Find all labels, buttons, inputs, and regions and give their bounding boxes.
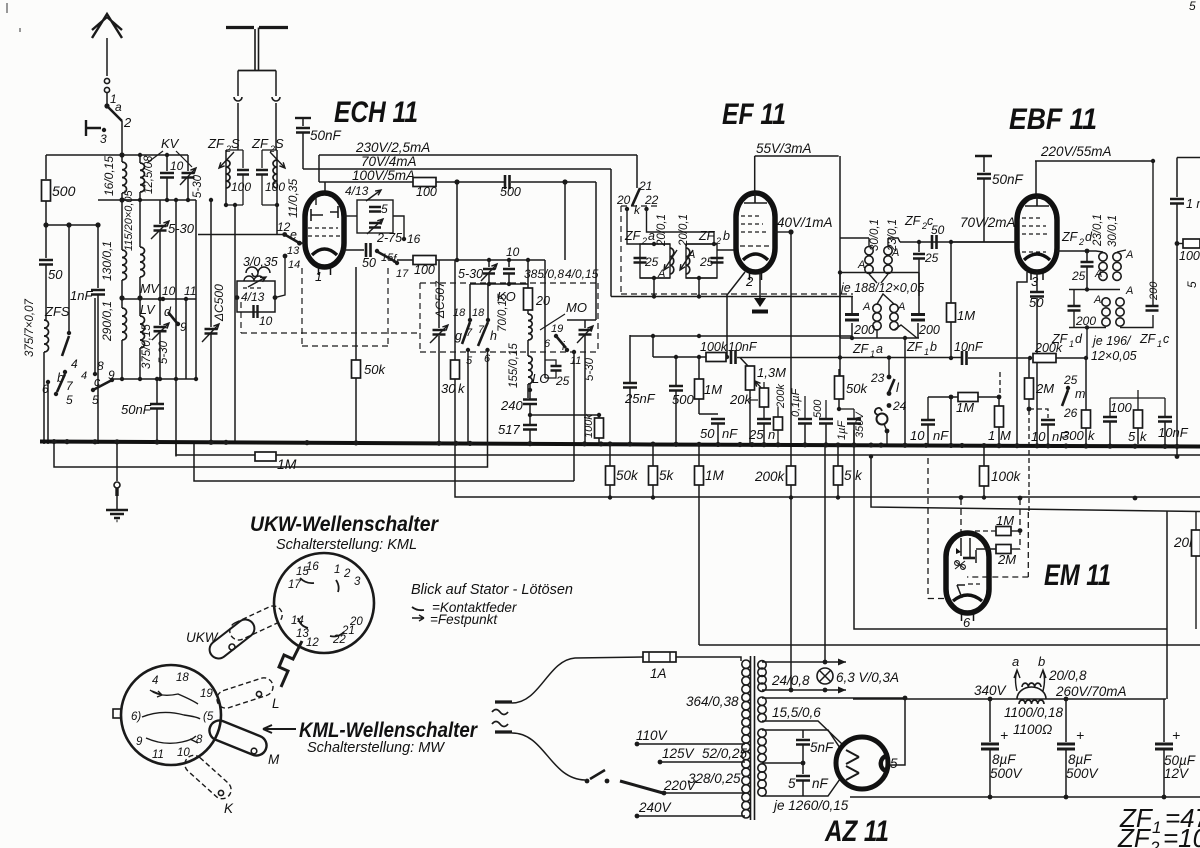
wire cathode rail y296 bbox=[611, 296, 853, 298]
svg-text:nF: nF bbox=[722, 426, 738, 441]
svg-text:3: 3 bbox=[100, 132, 107, 146]
heater lines with arrows bbox=[762, 661, 846, 663]
ZF1 coil tent bbox=[877, 294, 894, 304]
resistor 500 small bbox=[774, 417, 783, 430]
svg-text:20/0,1: 20/0,1 bbox=[678, 214, 690, 247]
output choke 20/0,8 bbox=[1017, 687, 1046, 699]
node line y200 bbox=[122, 199, 196, 201]
svg-text:5: 5 bbox=[381, 202, 388, 216]
mains plug bbox=[495, 702, 512, 732]
resistor 5k EBF bbox=[1134, 410, 1143, 428]
svg-text:1M: 1M bbox=[277, 456, 297, 472]
wires HV to AZ11 bbox=[803, 730, 840, 748]
ZF2d circuit capacitor 25 bbox=[1086, 251, 1088, 261]
capacitor 5nF upper bbox=[802, 730, 804, 738]
resistor 1M EBF bbox=[947, 303, 956, 322]
svg-text:1M: 1M bbox=[704, 382, 722, 397]
svg-text:10: 10 bbox=[506, 245, 520, 259]
capacitor 50 bbox=[45, 225, 47, 258]
resistor 50k row bbox=[606, 466, 615, 485]
svg-text:1M: 1M bbox=[705, 468, 725, 483]
pilot lamp 6,3V bbox=[817, 668, 833, 684]
dashed wire 2M node to 10nF mid and EM11 bbox=[1029, 409, 1048, 512]
scan mark top-left bbox=[7, 3, 20, 32]
wire can1 down to bus bbox=[234, 205, 236, 444]
svg-text:ΔC507: ΔC507 bbox=[433, 280, 447, 319]
wire contacts 18 up bbox=[469, 284, 471, 318]
svg-text:517: 517 bbox=[498, 422, 520, 437]
svg-text:h: h bbox=[490, 329, 497, 343]
svg-text:230V/2,5mA: 230V/2,5mA bbox=[355, 140, 430, 155]
svg-text:A: A bbox=[1125, 249, 1133, 261]
svg-text:a: a bbox=[115, 100, 122, 114]
svg-text:nF: nF bbox=[812, 776, 829, 791]
frame antenna crossbar bbox=[238, 70, 276, 72]
svg-text:k: k bbox=[634, 203, 641, 217]
svg-text:385/0,8: 385/0,8 bbox=[524, 267, 564, 281]
svg-text:18: 18 bbox=[176, 672, 189, 684]
switch l contacts 23 24 bbox=[888, 358, 890, 377]
trimmer 5-30 KV bbox=[187, 155, 189, 171]
tube EBF11 envelope bbox=[1017, 196, 1057, 272]
svg-text:200: 200 bbox=[853, 323, 875, 337]
svg-text:30: 30 bbox=[441, 381, 456, 396]
svg-text:2: 2 bbox=[343, 568, 351, 580]
resistor 100k right edge bbox=[1183, 239, 1200, 248]
coil 130/0,1 bbox=[121, 200, 123, 250]
wire AVC line y336 bbox=[630, 335, 852, 337]
svg-text:Schalterstellung: MW: Schalterstellung: MW bbox=[307, 740, 445, 756]
coupling link bbox=[279, 641, 302, 687]
frame antenna left leg bbox=[237, 71, 239, 97]
svg-text:EF 11: EF 11 bbox=[722, 98, 786, 131]
resistor 1M row bbox=[695, 466, 704, 485]
svg-text:8: 8 bbox=[97, 359, 104, 373]
capacitor 200 ZF1b bbox=[911, 315, 925, 321]
svg-text:4/0,15: 4/0,15 bbox=[565, 267, 599, 281]
capacitor 25 shunt bbox=[918, 242, 920, 252]
svg-text:10: 10 bbox=[910, 428, 925, 443]
svg-text:25: 25 bbox=[555, 374, 570, 388]
svg-text:4/13: 4/13 bbox=[241, 290, 265, 304]
svg-text:5: 5 bbox=[844, 468, 852, 483]
svg-text:25: 25 bbox=[1071, 269, 1086, 283]
svg-text:ZF: ZF bbox=[698, 229, 716, 243]
svg-text:23/0,1: 23/0,1 bbox=[1092, 214, 1104, 247]
transformer primary winding bbox=[742, 660, 750, 668]
svg-text:130/0,1: 130/0,1 bbox=[100, 241, 114, 281]
wire AVC feed line y357 bbox=[652, 336, 654, 357]
switch f lever 17 bbox=[375, 249, 379, 253]
resistor 500 bbox=[42, 180, 51, 201]
capacitor 50nF cathode bbox=[711, 419, 725, 424]
wire feed into ZF2a bbox=[627, 209, 670, 244]
wire triode grid to box bbox=[344, 215, 357, 217]
svg-text:200: 200 bbox=[1148, 281, 1160, 301]
capacitor 50nF ECH bbox=[295, 117, 311, 119]
capacitor 50nF EBF bbox=[975, 155, 992, 158]
svg-text:+: + bbox=[1076, 727, 1084, 743]
svg-text:11: 11 bbox=[570, 355, 581, 367]
svg-text:5-30: 5-30 bbox=[168, 221, 195, 236]
svg-text:4: 4 bbox=[152, 675, 158, 687]
svg-text:UKW: UKW bbox=[186, 630, 219, 645]
svg-text:500: 500 bbox=[500, 185, 521, 199]
svg-text:5k: 5k bbox=[659, 468, 675, 483]
svg-text:10nF: 10nF bbox=[728, 340, 758, 354]
svg-text:UKW-Wellenschalter: UKW-Wellenschalter bbox=[250, 513, 440, 536]
svg-text:je 1260/0,15: je 1260/0,15 bbox=[772, 798, 849, 813]
svg-text:M: M bbox=[268, 752, 280, 767]
svg-text:5: 5 bbox=[1185, 281, 1199, 288]
svg-text:1A: 1A bbox=[650, 666, 667, 681]
svg-text:6: 6 bbox=[544, 338, 551, 350]
lever M solid bbox=[206, 717, 269, 758]
vertical feed x196 bbox=[195, 200, 197, 379]
legend Festpunkt bbox=[412, 615, 424, 621]
svg-text:2: 2 bbox=[123, 115, 132, 130]
dashed box ZF2ab bbox=[621, 206, 853, 294]
resistor 50k ECH cathode bbox=[355, 267, 357, 360]
svg-text:ZF: ZF bbox=[1061, 230, 1079, 244]
ZF1 transformer je188 top rail bbox=[840, 272, 919, 274]
capacitor 500 bbox=[669, 386, 683, 391]
coil 16/0,15 bbox=[121, 155, 123, 162]
wire EF11 pin to AVC junction bbox=[727, 272, 745, 357]
svg-text:MV: MV bbox=[140, 282, 160, 296]
secondary 1260 HV winding bbox=[758, 729, 766, 737]
capacitor 25nF bbox=[623, 383, 637, 388]
svg-text:115/20×0,05: 115/20×0,05 bbox=[123, 189, 135, 251]
ZF1 bottom rail bbox=[840, 337, 919, 339]
capacitor 5 bbox=[369, 207, 381, 212]
svg-text:19: 19 bbox=[200, 688, 213, 700]
svg-text:100: 100 bbox=[231, 180, 251, 194]
svg-text:20/0,1: 20/0,1 bbox=[656, 214, 668, 247]
wire B+ 340V line bbox=[853, 698, 1166, 700]
svg-text:2M: 2M bbox=[997, 552, 1016, 567]
svg-text:26: 26 bbox=[1063, 406, 1078, 420]
svg-text:6): 6) bbox=[131, 711, 141, 723]
lever dashed upper bbox=[227, 603, 285, 643]
svg-text:100: 100 bbox=[414, 263, 435, 277]
resistor 20 bbox=[527, 260, 529, 288]
wire filament lower tap to AZ11 bbox=[762, 721, 842, 744]
svg-text:328/0,25: 328/0,25 bbox=[688, 771, 741, 786]
svg-text:50k: 50k bbox=[364, 362, 386, 377]
capacitor 10 KV bbox=[166, 155, 168, 171]
svg-text:3/0,35: 3/0,35 bbox=[243, 255, 278, 269]
switch b contacts 4-7-5-6 bbox=[67, 331, 71, 335]
ZF1b coil bbox=[890, 304, 898, 312]
fuse 1A bbox=[643, 652, 676, 662]
svg-text:17: 17 bbox=[396, 268, 409, 280]
AZ11 internals bbox=[846, 750, 859, 780]
svg-text:S: S bbox=[231, 136, 240, 151]
wire ps top border bbox=[699, 644, 1200, 646]
resistor 5k row2 bbox=[834, 466, 843, 485]
svg-text:70V/4mA: 70V/4mA bbox=[361, 154, 417, 169]
legend Kontaktfeder bbox=[412, 607, 424, 610]
svg-text:2: 2 bbox=[745, 274, 754, 289]
svg-text:110V: 110V bbox=[636, 728, 669, 743]
svg-text:12: 12 bbox=[277, 220, 291, 234]
svg-text:LV: LV bbox=[140, 303, 156, 317]
ZF1d bottom rail bbox=[1069, 327, 1106, 329]
node line y155 KV bbox=[122, 154, 188, 156]
wire EBF diode line bbox=[1017, 272, 1027, 444]
capacitor 1nF bbox=[91, 290, 105, 295]
svg-text:220V/55mA: 220V/55mA bbox=[1040, 144, 1112, 159]
svg-text:240: 240 bbox=[500, 398, 523, 413]
resistor 30k bbox=[454, 260, 456, 360]
svg-text:ZF: ZF bbox=[207, 136, 225, 151]
svg-text:1: 1 bbox=[1152, 818, 1161, 837]
vertical feed x176 bbox=[175, 200, 177, 457]
svg-text:1: 1 bbox=[315, 269, 322, 284]
svg-text:12,5/08: 12,5/08 bbox=[143, 155, 155, 194]
wire ZF2b to EF grid bbox=[717, 249, 736, 251]
svg-text:9: 9 bbox=[108, 368, 115, 382]
svg-text:0,1µF: 0,1µF bbox=[790, 387, 802, 417]
svg-text:100: 100 bbox=[416, 185, 437, 199]
antenna coupling gap bbox=[104, 78, 109, 83]
wire left node to 1nF bbox=[46, 224, 98, 226]
svg-text:10: 10 bbox=[259, 314, 273, 328]
svg-text:12×0,05: 12×0,05 bbox=[1091, 349, 1137, 363]
trimmer 2-75 bbox=[369, 223, 381, 228]
capacitor 50 osc bbox=[344, 249, 364, 251]
svg-text:500: 500 bbox=[52, 183, 76, 199]
svg-text:50: 50 bbox=[931, 223, 945, 237]
wire top-left horizontal bbox=[46, 154, 122, 156]
antenna bbox=[106, 38, 108, 76]
svg-text:100k: 100k bbox=[1179, 249, 1200, 263]
right column 1n cap bbox=[1177, 157, 1200, 159]
svg-text:50nF: 50nF bbox=[121, 402, 152, 417]
svg-text:A: A bbox=[857, 259, 865, 271]
svg-text:ZF: ZF bbox=[1139, 332, 1157, 346]
svg-text:ZF: ZF bbox=[904, 214, 922, 228]
coil 290/0,1 bbox=[121, 298, 123, 308]
svg-text:25: 25 bbox=[924, 251, 939, 265]
svg-text:52/0,25: 52/0,25 bbox=[702, 746, 748, 761]
svg-text:50: 50 bbox=[700, 426, 715, 441]
svg-text:S: S bbox=[275, 136, 284, 151]
resistor 100 screen bbox=[413, 178, 436, 187]
svg-text:ΔC500: ΔC500 bbox=[212, 284, 226, 322]
trimmer 5-30 MO bbox=[584, 320, 586, 328]
UKW switch disc bbox=[274, 553, 374, 653]
wire e-line bbox=[198, 234, 284, 236]
svg-text:2: 2 bbox=[1149, 838, 1160, 848]
svg-text:24: 24 bbox=[892, 399, 907, 413]
wire mains top to fuse bbox=[512, 657, 643, 703]
svg-text:1: 1 bbox=[1157, 339, 1162, 349]
svg-text:200k: 200k bbox=[775, 384, 787, 409]
svg-text:9: 9 bbox=[136, 736, 143, 748]
dial lamp bbox=[877, 414, 888, 425]
dashed box ECH11 cathode bbox=[302, 268, 388, 346]
svg-text:100: 100 bbox=[1110, 400, 1132, 415]
svg-text:2M: 2M bbox=[1035, 381, 1054, 396]
svg-text:6: 6 bbox=[963, 615, 971, 630]
oscillator box 4/13 bbox=[237, 281, 275, 312]
svg-text:ZF: ZF bbox=[906, 340, 924, 354]
capacitor 200 ZF1a bbox=[851, 297, 853, 314]
svg-text:375/0,15: 375/0,15 bbox=[141, 324, 153, 369]
svg-text:KML-Wellenschalter: KML-Wellenschalter bbox=[299, 719, 479, 742]
svg-text:16: 16 bbox=[306, 561, 319, 573]
svg-text:7: 7 bbox=[478, 324, 485, 336]
svg-text:14: 14 bbox=[288, 259, 300, 271]
wire contact 11 down bbox=[185, 299, 187, 379]
svg-text:50nF: 50nF bbox=[992, 172, 1024, 187]
svg-text:1M: 1M bbox=[956, 400, 974, 415]
svg-text:220V: 220V bbox=[663, 778, 698, 793]
ground bus bbox=[40, 442, 1200, 447]
wire LO junction to 100k bbox=[530, 414, 599, 416]
svg-text:200k: 200k bbox=[754, 469, 786, 484]
wire below-bus line y455 bbox=[176, 444, 1200, 455]
svg-text:24/0,8: 24/0,8 bbox=[771, 673, 810, 688]
IF can 1 coil+cap 100 bbox=[225, 150, 227, 205]
svg-text:100k: 100k bbox=[583, 414, 595, 438]
svg-text:je 196/: je 196/ bbox=[1091, 334, 1132, 348]
trimmer 5-30 LV bbox=[159, 299, 161, 325]
svg-text:19: 19 bbox=[551, 323, 563, 335]
wire 2 to node bbox=[121, 121, 123, 155]
svg-text:11: 11 bbox=[184, 284, 196, 298]
svg-text:50: 50 bbox=[48, 267, 63, 282]
tube ECH11 envelope bbox=[305, 193, 344, 267]
svg-text:5: 5 bbox=[788, 776, 796, 791]
resistor 300k bbox=[1082, 410, 1091, 428]
svg-text:Blick auf Stator - Lötösen: Blick auf Stator - Lötösen bbox=[411, 582, 573, 598]
coil 375/0,15 bbox=[139, 298, 141, 316]
ZF1a coil bbox=[873, 304, 881, 312]
svg-text:1M: 1M bbox=[957, 308, 975, 323]
svg-text:AZ 11: AZ 11 bbox=[824, 815, 889, 848]
EBF11 internals bbox=[1025, 196, 1049, 206]
svg-text:=10: =10 bbox=[1163, 823, 1200, 848]
svg-text:12V: 12V bbox=[1164, 766, 1190, 781]
dashed wires EM11 bbox=[928, 458, 946, 599]
title KML-Wellenschalter bbox=[263, 725, 296, 733]
svg-text:A: A bbox=[687, 249, 695, 261]
wire AVC line continues right bbox=[737, 357, 961, 359]
svg-text:ZF: ZF bbox=[1117, 823, 1152, 848]
svg-text:100: 100 bbox=[265, 180, 285, 194]
lever UKW solid bbox=[206, 616, 258, 662]
svg-text:500V: 500V bbox=[1066, 766, 1100, 781]
svg-text:b: b bbox=[1038, 654, 1045, 669]
ECH11 grid cap wires bbox=[297, 242, 305, 244]
svg-text:5: 5 bbox=[1128, 429, 1136, 444]
wire 13 to box bbox=[275, 256, 285, 298]
capacitor 5nF lower bbox=[802, 763, 804, 774]
svg-text:5: 5 bbox=[466, 355, 473, 367]
ECH11 internals bbox=[311, 206, 338, 221]
frame antenna bar bbox=[226, 26, 254, 29]
svg-text:M: M bbox=[1000, 428, 1011, 443]
svg-text:155/0,15: 155/0,15 bbox=[508, 343, 520, 388]
wire fuse to transformer bbox=[676, 657, 741, 661]
svg-text:500: 500 bbox=[812, 399, 824, 418]
svg-text:11: 11 bbox=[152, 749, 164, 761]
svg-text:4: 4 bbox=[71, 357, 78, 371]
svg-text:50: 50 bbox=[362, 256, 376, 270]
svg-text:375/7×0,07: 375/7×0,07 bbox=[24, 299, 36, 357]
svg-text:9: 9 bbox=[180, 320, 187, 334]
svg-text:5: 5 bbox=[66, 393, 73, 407]
svg-text:a: a bbox=[648, 229, 655, 243]
svg-text:8µF: 8µF bbox=[992, 752, 1016, 767]
svg-text:1: 1 bbox=[924, 347, 929, 357]
svg-text:25: 25 bbox=[644, 255, 659, 269]
svg-text:55V/3mA: 55V/3mA bbox=[756, 141, 812, 156]
svg-text:300: 300 bbox=[1062, 428, 1084, 443]
svg-text:b: b bbox=[930, 340, 937, 354]
svg-text:10: 10 bbox=[177, 747, 190, 759]
svg-text:50k: 50k bbox=[846, 381, 868, 396]
svg-text:1: 1 bbox=[988, 428, 995, 443]
tube EF11 envelope bbox=[736, 193, 775, 272]
ground symbol main bbox=[116, 442, 118, 481]
svg-text:13: 13 bbox=[287, 245, 300, 257]
wire below-bus line y481 bbox=[194, 444, 574, 481]
resistor 1M horizontal bbox=[958, 393, 978, 402]
svg-text:200: 200 bbox=[918, 323, 940, 337]
wire ZF1 return to bus bbox=[904, 338, 906, 446]
svg-text:+: + bbox=[1172, 727, 1180, 743]
wire 1M drop to y645 bbox=[698, 485, 700, 645]
wire can2 down to e-line bbox=[276, 205, 278, 235]
IF can 2 coil+cap 100 bbox=[276, 150, 278, 205]
resistor 1M AVC return bbox=[255, 452, 276, 461]
svg-text:10: 10 bbox=[162, 284, 176, 298]
svg-text:5-30: 5-30 bbox=[458, 267, 483, 281]
node line KO y284 bbox=[470, 283, 528, 285]
svg-text:MO: MO bbox=[566, 300, 587, 315]
resistor 2M bbox=[1025, 378, 1034, 399]
wire mains bottom to switch bbox=[512, 733, 585, 780]
svg-text:4: 4 bbox=[81, 370, 87, 382]
svg-text:11/0,35: 11/0,35 bbox=[286, 179, 300, 218]
svg-text:100V/5mA: 100V/5mA bbox=[352, 168, 415, 183]
lever L dashed bbox=[215, 675, 276, 710]
EF11 cathode ground bbox=[759, 272, 761, 298]
svg-text:25: 25 bbox=[1063, 373, 1078, 387]
capacitor 10 osc bbox=[254, 305, 258, 318]
svg-text:d: d bbox=[1075, 332, 1083, 346]
svg-text:2: 2 bbox=[1078, 237, 1084, 247]
svg-text:25: 25 bbox=[748, 427, 764, 442]
svg-text:125V: 125V bbox=[662, 746, 696, 761]
svg-text:i: i bbox=[562, 339, 565, 353]
svg-text:1 n: 1 n bbox=[1186, 197, 1200, 211]
coil 155/0,15 MO bbox=[528, 356, 532, 384]
svg-text:ZFS: ZFS bbox=[44, 304, 70, 319]
wire below-bus line y467 bbox=[54, 351, 488, 467]
wire below-bus line y497 bbox=[455, 444, 1200, 497]
capacitor 10nF right bbox=[1158, 417, 1172, 422]
svg-text:A: A bbox=[862, 301, 870, 313]
wire heater drop x825 bbox=[824, 444, 826, 662]
svg-text:ZF: ZF bbox=[624, 229, 642, 243]
wire 1M node to bus bbox=[950, 397, 952, 446]
svg-text:16/0,15: 16/0,15 bbox=[102, 156, 116, 196]
